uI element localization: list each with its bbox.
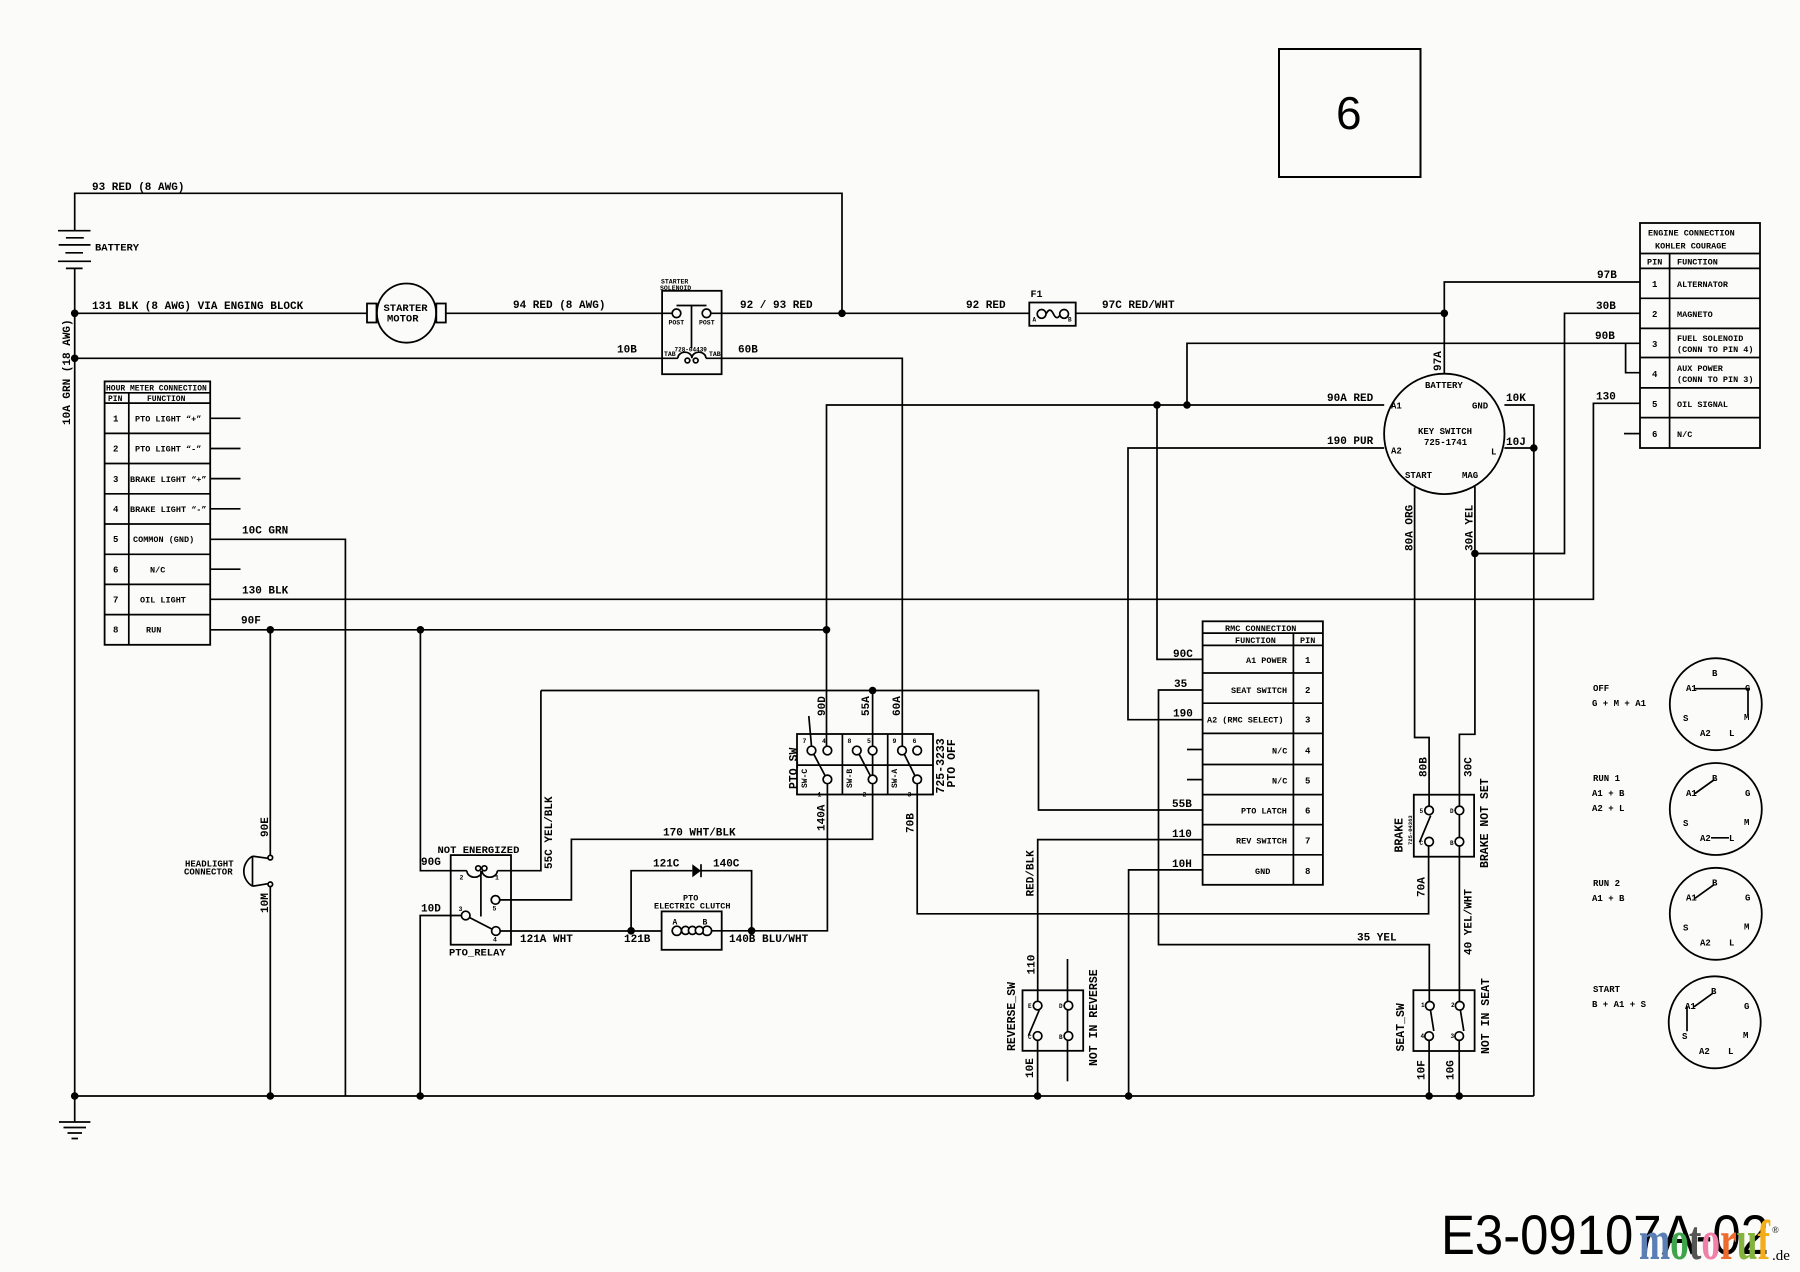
svg-text:1: 1: [1421, 1002, 1425, 1009]
svg-text:92 RED: 92 RED: [966, 300, 1006, 312]
svg-text:B: B: [1711, 987, 1717, 997]
wire 10M from headlight connector to ground bus: [260, 887, 272, 1096]
svg-text:5: 5: [1652, 400, 1657, 410]
key position diagram START: [1592, 976, 1761, 1068]
svg-text:130: 130: [1596, 392, 1616, 404]
svg-text:TAB: TAB: [709, 351, 721, 358]
svg-text:B: B: [1712, 669, 1718, 679]
svg-text:8: 8: [113, 626, 118, 636]
svg-text:35 YEL: 35 YEL: [1357, 933, 1397, 945]
wire 90C from 90A junction to RMC pin 1: [1157, 405, 1203, 661]
svg-text:97C RED/WHT: 97C RED/WHT: [1102, 300, 1175, 312]
svg-text:1: 1: [818, 792, 822, 799]
PTO switch 725-3233: [788, 716, 959, 799]
svg-text:PTO_RELAY: PTO_RELAY: [449, 948, 506, 960]
svg-text:2: 2: [113, 445, 118, 455]
svg-text:OFF: OFF: [1593, 684, 1609, 694]
svg-text:110: 110: [1027, 955, 1039, 975]
svg-text:130 BLK: 130 BLK: [242, 586, 289, 598]
seat switch: [1395, 978, 1493, 1054]
ground bus: [71, 1092, 1534, 1100]
svg-text:4: 4: [822, 738, 826, 745]
svg-text:92 / 93 RED: 92 / 93 RED: [740, 300, 813, 312]
svg-text:NOT ENERGIZED: NOT ENERGIZED: [438, 845, 520, 857]
svg-text:2: 2: [1305, 686, 1310, 696]
svg-text:FUNCTION: FUNCTION: [1677, 258, 1718, 268]
starter solenoid: [660, 279, 722, 375]
svg-text:1: 1: [113, 415, 119, 425]
svg-text:9: 9: [893, 738, 897, 745]
svg-text:GND: GND: [1255, 867, 1270, 877]
svg-text:D: D: [1450, 808, 1454, 815]
svg-text:4: 4: [493, 937, 497, 944]
svg-text:80B: 80B: [1419, 757, 1431, 777]
svg-text:A2: A2: [1700, 834, 1711, 844]
svg-text:2: 2: [460, 875, 464, 882]
svg-text:190 PUR: 190 PUR: [1327, 436, 1374, 448]
wire 90G from 90F junction down to PTO relay coil: [420, 630, 450, 871]
svg-text:10C GRN: 10C GRN: [242, 526, 288, 538]
svg-text:10F: 10F: [1417, 1060, 1429, 1080]
svg-text:RUN: RUN: [146, 626, 161, 636]
key switch 725-1741: [1384, 374, 1504, 494]
wire 30A YEL / 30B from key MAG to engine connection pin 2: [1465, 301, 1641, 557]
svg-text:ELECTRIC CLUTCH: ELECTRIC CLUTCH: [654, 902, 731, 912]
wire 121A WHT from relay pin 4: [500, 927, 661, 946]
svg-text:motoruf: motoruf: [1639, 1210, 1771, 1272]
svg-text:GND: GND: [1472, 402, 1489, 412]
svg-text:PIN: PIN: [1647, 258, 1662, 268]
wire 10F seat switch pin 4 to ground bus: [1417, 1040, 1433, 1099]
svg-text:A2: A2: [1699, 1047, 1710, 1057]
wire 93 RED (8 AWG) from battery + to solenoid output junction: [75, 182, 842, 313]
svg-text:S: S: [1683, 924, 1689, 934]
hour meter connection table: [105, 381, 211, 644]
svg-text:.de: .de: [1772, 1248, 1790, 1264]
svg-text:TAB: TAB: [664, 351, 676, 358]
svg-text:B: B: [703, 919, 708, 928]
wire 35 / 35 YEL from RMC pin 2 to seat switch pin 1: [1159, 679, 1430, 1006]
battery B1: [58, 231, 140, 269]
svg-text:RUN 2: RUN 2: [1593, 879, 1620, 889]
wire 10G seat switch pin 3 to ground bus: [1446, 1040, 1463, 1099]
svg-text:97B: 97B: [1597, 270, 1617, 282]
svg-text:L: L: [1729, 729, 1734, 739]
svg-text:5: 5: [867, 738, 871, 745]
svg-text:SEAT SWITCH: SEAT SWITCH: [1231, 686, 1287, 696]
svg-text:A: A: [673, 919, 678, 928]
reverse switch: [1006, 959, 1101, 1081]
wire 90F from hour meter pin 8 (RUN): [210, 616, 826, 634]
engine connection stub N/C pin 6: [1624, 433, 1640, 435]
svg-text:BATTERY: BATTERY: [95, 243, 140, 255]
svg-text:90A RED: 90A RED: [1327, 393, 1374, 405]
wire 131 BLK (8 AWG) VIA ENGING BLOCK: [71, 301, 367, 317]
wire 92 / 93 RED and 92 RED to fuse: [711, 300, 1030, 317]
wire 140B BLU/WHT / 140A from clutch B to PTO switch pin 1: [712, 784, 829, 946]
svg-text:35: 35: [1174, 679, 1188, 691]
svg-text:B: B: [1712, 774, 1718, 784]
svg-text:6: 6: [1336, 87, 1362, 139]
svg-text:MOTOR: MOTOR: [387, 314, 419, 326]
hour meter stub pin 4: [210, 508, 240, 510]
wire 10E from reverse switch C to ground bus: [1025, 1040, 1041, 1099]
svg-text:SOLENOID: SOLENOID: [660, 285, 691, 292]
svg-text:B: B: [1450, 840, 1454, 847]
svg-text:3: 3: [1652, 340, 1657, 350]
svg-text:L: L: [1729, 939, 1734, 949]
svg-text:B + A1 + S: B + A1 + S: [1592, 1000, 1647, 1010]
svg-text:3: 3: [908, 792, 912, 799]
svg-text:3: 3: [113, 475, 118, 485]
svg-text:7: 7: [113, 596, 118, 606]
svg-text:N/C: N/C: [150, 565, 165, 575]
svg-text:G: G: [1745, 894, 1750, 904]
svg-text:90D: 90D: [817, 696, 829, 716]
svg-text:M: M: [1744, 923, 1749, 933]
svg-text:PTO_SW: PTO_SW: [788, 747, 801, 789]
svg-text:N/C: N/C: [1272, 777, 1287, 787]
svg-text:30C: 30C: [1464, 757, 1476, 777]
wire 10A GRN (18 AWG) battery negative down to ground bus: [62, 268, 75, 1096]
svg-text:131 BLK (8 AWG) VIA ENGING BLO: 131 BLK (8 AWG) VIA ENGING BLOCK: [92, 301, 304, 313]
svg-text:2: 2: [863, 792, 867, 799]
svg-text:L: L: [1491, 448, 1496, 458]
svg-text:A1 + B: A1 + B: [1592, 894, 1625, 904]
svg-text:B: B: [1712, 879, 1718, 889]
svg-text:60A: 60A: [892, 696, 904, 716]
key position diagram RUN 2: [1592, 868, 1762, 960]
svg-text:BRAKE NOT SET: BRAKE NOT SET: [1479, 778, 1492, 868]
svg-text:10M: 10M: [260, 893, 272, 913]
svg-text:190: 190: [1173, 709, 1193, 721]
svg-text:140B BLU/WHT: 140B BLU/WHT: [729, 934, 809, 946]
svg-text:90E: 90E: [260, 817, 272, 837]
svg-text:1: 1: [1652, 280, 1658, 290]
svg-text:725-04363: 725-04363: [1407, 815, 1414, 845]
wire 97C RED/WHT: [1076, 300, 1448, 317]
hour meter stub pin 2: [210, 448, 240, 450]
svg-text:RED/BLK: RED/BLK: [1026, 850, 1038, 897]
RMC stub N/C pin 5: [1187, 779, 1203, 781]
wire 40 YEL/WHT from brake switch B down to seat switch pin 2: [1459, 810, 1475, 1005]
svg-text:2: 2: [1652, 310, 1657, 320]
svg-text:BRAKE LIGHT “+”: BRAKE LIGHT “+”: [130, 475, 207, 485]
svg-text:10K: 10K: [1506, 393, 1526, 405]
wire 190 PUR from key A2 to RMC pin 3: [1128, 436, 1384, 721]
svg-text:6: 6: [1305, 807, 1310, 817]
svg-text:START: START: [1593, 985, 1621, 995]
svg-text:NOT IN SEAT: NOT IN SEAT: [1480, 978, 1493, 1054]
svg-text:G: G: [1744, 1002, 1749, 1012]
svg-text:5: 5: [113, 535, 118, 545]
svg-text:C: C: [1420, 840, 1424, 847]
svg-text:OIL SIGNAL: OIL SIGNAL: [1677, 400, 1728, 410]
hour meter stub pin 1: [210, 417, 240, 419]
svg-text:M: M: [1744, 818, 1749, 828]
wire 10B from battery negative to solenoid coil: [71, 345, 678, 363]
wire 90A RED / 90D from key A1 to PTO switch pin 4: [817, 393, 1384, 746]
svg-text:MAGNETO: MAGNETO: [1677, 310, 1713, 320]
svg-text:10A GRN (18 AWG): 10A GRN (18 AWG): [62, 319, 74, 425]
svg-text:6: 6: [113, 565, 118, 575]
svg-text:BATTERY: BATTERY: [1425, 381, 1463, 391]
svg-text:10D: 10D: [421, 904, 441, 916]
svg-text:70A: 70A: [1417, 877, 1429, 897]
svg-text:30B: 30B: [1596, 301, 1616, 313]
svg-text:40 YEL/WHT: 40 YEL/WHT: [1464, 889, 1476, 955]
svg-text:SW-A: SW-A: [891, 769, 900, 788]
svg-text:121B: 121B: [624, 934, 651, 946]
wire 30C from MAG junction down to brake switch D: [1459, 554, 1475, 811]
svg-text:A1 POWER: A1 POWER: [1246, 656, 1288, 666]
svg-text:110: 110: [1172, 829, 1192, 841]
svg-text:10H: 10H: [1172, 859, 1192, 871]
svg-text:3: 3: [1305, 716, 1310, 726]
wire 97A / 97B to engine connection pin 1: [1433, 270, 1640, 374]
svg-text:M: M: [1743, 1031, 1748, 1041]
svg-text:121A WHT: 121A WHT: [520, 934, 573, 946]
svg-text:AUX POWER: AUX POWER: [1677, 364, 1724, 374]
svg-text:NOT IN REVERSE: NOT IN REVERSE: [1088, 969, 1101, 1066]
wire 55C YEL/BLK from relay coil pin 1: [511, 691, 556, 871]
PTO relay: [438, 845, 520, 960]
svg-text:(CONN TO PIN 4): (CONN TO PIN 4): [1677, 345, 1754, 355]
wire 10H from RMC pin 8 to ground bus: [1125, 859, 1203, 1100]
svg-text:A2 (RMC SELECT): A2 (RMC SELECT): [1207, 716, 1284, 726]
RMC connection table: [1203, 621, 1323, 885]
svg-text:BRAKE LIGHT “-”: BRAKE LIGHT “-”: [130, 505, 207, 515]
svg-text:30A YEL: 30A YEL: [1465, 504, 1477, 551]
svg-text:COMMON (GND): COMMON (GND): [133, 535, 194, 545]
svg-text:B: B: [1059, 1034, 1063, 1041]
svg-text:94 RED (8 AWG): 94 RED (8 AWG): [513, 300, 605, 312]
svg-text:KEY SWITCH: KEY SWITCH: [1418, 427, 1472, 437]
wire 60B / 60A from solenoid coil to PTO switch pin 9: [706, 345, 904, 747]
svg-text:90C: 90C: [1173, 649, 1193, 661]
svg-text:SW-B: SW-B: [846, 769, 855, 788]
svg-text:C: C: [1028, 1034, 1032, 1041]
svg-text:A2: A2: [1391, 447, 1402, 457]
svg-text:A1 + B: A1 + B: [1592, 789, 1625, 799]
svg-text:A: A: [1033, 317, 1037, 324]
svg-text:80A ORG: 80A ORG: [1405, 504, 1417, 551]
hour meter stub pin 3: [210, 478, 240, 480]
svg-text:CONNECTOR: CONNECTOR: [184, 868, 233, 878]
svg-text:L: L: [1728, 1047, 1733, 1057]
svg-text:93 RED (8 AWG): 93 RED (8 AWG): [92, 182, 184, 194]
wire 70A / 70B from PTO switch pin 3 to brake switch C: [906, 784, 1429, 914]
svg-text:1: 1: [495, 875, 499, 882]
svg-text:S: S: [1683, 714, 1689, 724]
wire 121C to diode CR1: [631, 859, 692, 931]
svg-text:RUN 1: RUN 1: [1593, 774, 1621, 784]
svg-text:SW-C: SW-C: [801, 769, 810, 788]
svg-text:REVERSE_SW: REVERSE_SW: [1006, 982, 1019, 1051]
svg-text:G + M + A1: G + M + A1: [1592, 699, 1647, 709]
svg-text:5: 5: [1305, 777, 1310, 787]
wire 140C from diode to 140B junction: [701, 859, 755, 935]
svg-text:PIN: PIN: [108, 395, 123, 404]
svg-text:4: 4: [1305, 747, 1311, 757]
page number box 6: [1279, 49, 1421, 177]
wire 90B from 90A junction to engine connection pins 3 and 4: [1187, 331, 1640, 405]
svg-text:725-1741: 725-1741: [1424, 438, 1468, 448]
svg-text:START: START: [1405, 471, 1433, 481]
svg-text:BRAKE: BRAKE: [1394, 818, 1407, 853]
svg-text:2: 2: [1451, 1002, 1455, 1009]
hour meter stub pin 6: [210, 568, 240, 570]
svg-text:1: 1: [1305, 656, 1311, 666]
wire 90E from 90F junction down to headlight connector: [260, 630, 272, 856]
wire 10J key L terminal: [1504, 437, 1537, 452]
svg-text:70B: 70B: [906, 813, 918, 833]
svg-text:55C YEL/BLK: 55C YEL/BLK: [544, 796, 556, 869]
svg-text:A2: A2: [1700, 939, 1711, 949]
wire 10D from ground bus up to PTO relay pin 3: [420, 904, 461, 1097]
wire 170 WHT/BLK from relay pin 5 to PTO switch pin 2: [500, 755, 873, 900]
svg-text:A2 + L: A2 + L: [1592, 804, 1624, 814]
svg-text:POST: POST: [669, 320, 685, 327]
svg-text:140C: 140C: [713, 859, 740, 871]
svg-text:A2: A2: [1700, 729, 1711, 739]
fuse F1: [1029, 290, 1075, 326]
wire 10K from key GND down right side to ground bus: [1504, 393, 1533, 1096]
PTO electric clutch: [654, 894, 731, 950]
svg-text:7: 7: [1305, 837, 1310, 847]
svg-text:170 WHT/BLK: 170 WHT/BLK: [663, 828, 736, 840]
ground symbol: [59, 1096, 90, 1139]
wire 10C GRN from hour meter pin 5 to ground bus: [210, 526, 345, 1097]
svg-text:5: 5: [1420, 808, 1424, 815]
svg-text:10E: 10E: [1025, 1058, 1037, 1078]
svg-text:D: D: [1059, 1003, 1063, 1010]
svg-text:FUNCTION: FUNCTION: [147, 395, 186, 404]
svg-text:MAG: MAG: [1462, 471, 1478, 481]
svg-text:4: 4: [113, 505, 119, 515]
svg-text:5: 5: [493, 906, 497, 913]
brake switch: [1394, 778, 1493, 868]
svg-text:PIN: PIN: [1300, 636, 1315, 646]
svg-text:60B: 60B: [738, 345, 758, 357]
svg-text:POST: POST: [699, 320, 715, 327]
svg-text:90G: 90G: [421, 857, 441, 869]
wire 130 BLK from hour meter pin 7 to engine connection pin 5: [210, 392, 1640, 600]
svg-text:G: G: [1745, 789, 1750, 799]
svg-text:3: 3: [1451, 1033, 1455, 1040]
diode CR1: [692, 864, 701, 877]
svg-text:L: L: [1729, 834, 1734, 844]
svg-text:10G: 10G: [1446, 1060, 1458, 1080]
svg-text:4: 4: [1652, 370, 1658, 380]
wire 80A ORG from key START down to brake switch 5: [1405, 488, 1431, 811]
wire 94 RED (8 AWG): [446, 300, 672, 313]
svg-text:97A: 97A: [1433, 351, 1445, 371]
svg-text:140A: 140A: [817, 804, 829, 831]
svg-text:KOHLER COURAGE: KOHLER COURAGE: [1655, 242, 1726, 252]
key position diagram OFF: [1592, 658, 1762, 750]
svg-text:PTO LATCH: PTO LATCH: [1241, 807, 1287, 817]
svg-text:PTO LIGHT “-”: PTO LIGHT “-”: [135, 445, 201, 455]
svg-text:REV SWITCH: REV SWITCH: [1236, 837, 1287, 847]
svg-text:7: 7: [803, 738, 807, 745]
headlight connector: [184, 855, 273, 886]
svg-text:(CONN TO PIN 3): (CONN TO PIN 3): [1677, 375, 1754, 385]
svg-text:ALTERNATOR: ALTERNATOR: [1677, 280, 1729, 290]
wire 110 RED/BLK from RMC pin 7 to reverse switch E: [1026, 829, 1203, 1001]
wire 55A / 55B from relay to PTO switch pin 5 and RMC pin 6: [541, 687, 1203, 811]
svg-text:55A: 55A: [861, 696, 873, 716]
svg-text:6: 6: [913, 738, 917, 745]
svg-text:RMC CONNECTION: RMC CONNECTION: [1225, 624, 1296, 634]
svg-text:OIL LIGHT: OIL LIGHT: [140, 596, 186, 606]
svg-text:SEAT_SW: SEAT_SW: [1395, 1003, 1408, 1051]
svg-text:A1: A1: [1391, 402, 1402, 412]
RMC stub N/C pin 4: [1187, 749, 1203, 751]
svg-text:S: S: [1683, 819, 1689, 829]
svg-text:B: B: [1068, 317, 1072, 324]
engine connection table: [1640, 223, 1760, 448]
svg-text:N/C: N/C: [1677, 430, 1692, 440]
svg-text:8: 8: [1305, 867, 1310, 877]
svg-text:3: 3: [459, 906, 463, 913]
svg-text:PTO OFF: PTO OFF: [946, 739, 959, 787]
svg-text:90F: 90F: [241, 616, 261, 628]
key position diagram RUN 1: [1592, 763, 1762, 855]
svg-text:®: ®: [1772, 1225, 1779, 1235]
svg-text:E: E: [1028, 1003, 1032, 1010]
svg-text:PTO LIGHT “+”: PTO LIGHT “+”: [135, 415, 201, 425]
svg-text:FUEL SOLENOID: FUEL SOLENOID: [1677, 334, 1743, 344]
svg-text:10B: 10B: [617, 345, 637, 357]
svg-text:121C: 121C: [653, 859, 680, 871]
svg-text:8: 8: [848, 738, 852, 745]
svg-text:HOUR METER CONNECTION: HOUR METER CONNECTION: [106, 385, 207, 394]
svg-text:S: S: [1682, 1032, 1688, 1042]
svg-text:N/C: N/C: [1272, 747, 1287, 757]
starter motor M1: [367, 284, 446, 343]
svg-text:FUNCTION: FUNCTION: [1235, 636, 1276, 646]
svg-text:F1: F1: [1031, 290, 1043, 301]
svg-text:90B: 90B: [1595, 331, 1615, 343]
svg-text:6: 6: [1652, 430, 1657, 440]
svg-text:55B: 55B: [1172, 799, 1192, 811]
svg-text:10J: 10J: [1506, 437, 1526, 449]
motoruf.de watermark: [1639, 1210, 1790, 1272]
svg-text:4: 4: [1421, 1033, 1425, 1040]
svg-text:ENGINE CONNECTION: ENGINE CONNECTION: [1648, 229, 1735, 239]
